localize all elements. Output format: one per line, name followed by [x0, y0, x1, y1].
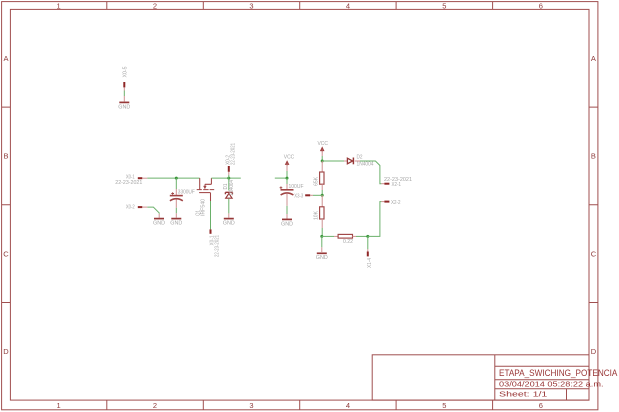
column numbers top [57, 1, 543, 10]
pin X3-3 (left of node) [294, 193, 313, 199]
wire node to GND [321, 236, 323, 247]
svg-text:1: 1 [57, 401, 61, 410]
ground GND (under 3300UF) [170, 213, 182, 226]
wire D1 to GND [228, 199, 230, 214]
wire 0.22 to node [356, 235, 368, 237]
svg-text:C: C [3, 249, 9, 258]
pin X1-4 (bottom) [367, 249, 373, 268]
column tick marks top [107, 2, 493, 10]
wire node to D1 [228, 178, 230, 190]
svg-text:3: 3 [249, 401, 253, 410]
svg-text:6: 6 [539, 401, 543, 410]
wire X0-5 to GND [123, 91, 125, 97]
svg-text:4: 4 [346, 401, 350, 410]
svg-text:GND: GND [281, 221, 293, 227]
wire X3-3 to node [313, 194, 322, 196]
node junction above D1 [227, 177, 230, 180]
svg-text:GND: GND [316, 255, 328, 261]
wire node to pin X1-4 [367, 236, 369, 249]
svg-text:X0-2: X0-2 [126, 205, 135, 211]
row letters right [591, 54, 597, 356]
supply VCC (above 100UF) [284, 155, 295, 171]
svg-text:X2-2: X2-2 [391, 200, 401, 206]
row letters left [3, 54, 9, 356]
pin X0-5 (top left) [123, 66, 129, 90]
wire Q1 source down [210, 201, 212, 229]
svg-text:ETAPA_SWICHING_POTENCIA: ETAPA_SWICHING_POTENCIA [499, 368, 617, 378]
wire Q1 drain to VCC node [211, 177, 240, 179]
svg-text:5: 5 [442, 401, 446, 410]
svg-text:22-23-2021: 22-23-2021 [215, 235, 221, 257]
svg-text:D: D [3, 347, 9, 356]
svg-text:C: C [591, 249, 597, 258]
title block frame [372, 355, 589, 400]
wire 10K to node [321, 228, 323, 236]
node junction right [366, 235, 369, 238]
column numbers bottom [57, 401, 543, 410]
pin X0-1 (below Q1) [210, 229, 221, 257]
svg-text:X1-4: X1-4 [367, 258, 373, 268]
node junction X3-3 [321, 194, 324, 197]
svg-text:VCC: VCC [284, 155, 295, 161]
title block text [499, 368, 617, 398]
svg-text:X3-3: X3-3 [294, 193, 303, 199]
ground GND (under X0-2) [153, 214, 165, 227]
capacitor 3300UF [170, 178, 196, 208]
svg-text:X2-1: X2-1 [392, 182, 402, 188]
pin X0-2 (above D1) [226, 143, 237, 178]
svg-text:A: A [591, 54, 596, 63]
resistor 0.22 [338, 234, 356, 245]
wire X0-1 to gate of Q1 [147, 177, 199, 179]
svg-text:1N4004: 1N4004 [357, 161, 374, 167]
node junction at 100UF [286, 177, 289, 180]
svg-text:03/04/2014 05:28:22 a.m.: 03/04/2014 05:28:22 a.m. [499, 380, 604, 389]
pin X0-2 (left) [126, 205, 147, 211]
pin X0-1 (left) [115, 175, 147, 186]
column tick marks bottom [107, 400, 493, 410]
diode D2 1N4004 [347, 155, 373, 168]
ground GND (under D1) [223, 213, 235, 226]
wire node to D2 [322, 160, 344, 162]
resistor 10K [314, 195, 324, 228]
svg-text:4: 4 [346, 1, 350, 10]
node junction at VCC / 65K / D2 [321, 160, 324, 163]
wire D2 to pin X2-1 [355, 160, 360, 162]
wire node to pin X2-2 [368, 202, 382, 237]
svg-text:3300UF: 3300UF [178, 190, 196, 196]
svg-text:IRF540: IRF540 [201, 199, 207, 216]
node junction at C1 top [175, 177, 178, 180]
svg-text:Sheet: 1/1: Sheet: 1/1 [499, 389, 547, 398]
svg-text:VCC: VCC [317, 141, 328, 147]
svg-text:22-23-2021: 22-23-2021 [115, 180, 142, 186]
pin X2-1 (right) [381, 177, 412, 188]
svg-text:A: A [3, 54, 8, 63]
svg-text:B: B [3, 152, 8, 161]
svg-text:D2: D2 [357, 155, 363, 161]
svg-text:GND: GND [153, 220, 165, 226]
wire C1 to GND [175, 208, 177, 214]
transistor Q1 IRF540 [197, 178, 215, 201]
svg-text:GND: GND [170, 220, 182, 226]
svg-text:100UF: 100UF [289, 184, 305, 190]
svg-text:2: 2 [153, 401, 157, 410]
pin X2-2 (right) [381, 200, 400, 206]
wire 65K to node [321, 190, 323, 195]
svg-text:1N4004: 1N4004 [229, 180, 235, 196]
node junction bottom left [320, 235, 323, 238]
svg-text:3: 3 [249, 1, 253, 10]
svg-text:0.22: 0.22 [343, 239, 353, 245]
wire VCC to node [321, 156, 323, 161]
capacitor 100UF [280, 178, 304, 206]
ground GND (bottom) [316, 247, 328, 261]
svg-text:B: B [591, 152, 596, 161]
wire node to R 0.22 [322, 235, 334, 237]
svg-text:GND: GND [223, 220, 235, 226]
svg-text:D: D [591, 347, 597, 356]
svg-text:10K: 10K [314, 210, 320, 220]
svg-text:2: 2 [153, 1, 157, 10]
svg-text:22-23-2021: 22-23-2021 [231, 143, 237, 165]
row tick marks left [2, 107, 11, 302]
wire VCC to node [286, 171, 288, 178]
row tick marks right [589, 107, 598, 302]
ground GND (under 100UF) [281, 214, 293, 227]
wire X0-2 to GND [147, 207, 159, 214]
diode D1 1N4004 [223, 180, 235, 198]
svg-text:X0-5: X0-5 [123, 66, 129, 77]
svg-text:5: 5 [442, 1, 446, 10]
resistor 65K [314, 161, 324, 190]
ground GND (top left) [118, 96, 130, 110]
svg-text:GND: GND [118, 104, 130, 110]
svg-text:1: 1 [57, 1, 61, 10]
svg-text:65K: 65K [314, 176, 320, 186]
supply VCC (above 65K) [317, 141, 328, 156]
wire 100UF to GND [286, 206, 288, 214]
svg-text:6: 6 [539, 1, 543, 10]
